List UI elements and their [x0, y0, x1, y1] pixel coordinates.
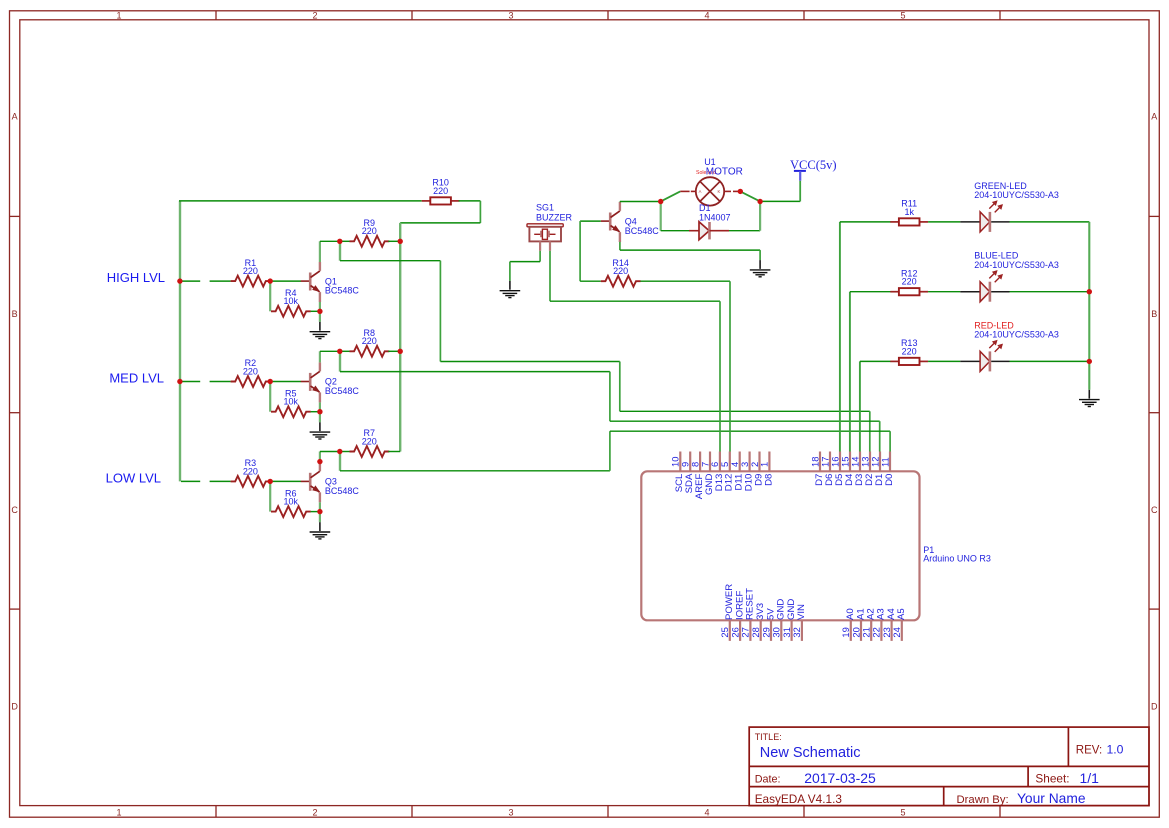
- svg-text:HIGH LVL: HIGH LVL: [107, 270, 165, 285]
- wire top horizontal to R10: [179, 200, 422, 202]
- junction dot R9 left: [337, 239, 342, 244]
- title block TITLE: [755, 732, 782, 742]
- svg-text:1.0: 1.0: [1107, 743, 1124, 757]
- ground Q2: [310, 422, 331, 439]
- svg-text:D8: D8: [763, 474, 774, 486]
- svg-text:220: 220: [433, 186, 448, 196]
- svg-text:B: B: [1151, 309, 1157, 319]
- wire Q2 base stub segment 2: [210, 381, 231, 383]
- junction dot Q3 collector: [317, 459, 322, 464]
- ground Q1: [310, 322, 331, 339]
- junction dot Q3 emitter: [317, 509, 322, 514]
- svg-text:4: 4: [704, 10, 709, 20]
- svg-text:MED LVL: MED LVL: [109, 371, 164, 386]
- wire Q2 base stub segment 1: [181, 381, 200, 383]
- svg-text:220: 220: [613, 266, 628, 276]
- resistor R14 220: [601, 258, 641, 287]
- wire R4 to emitter: [311, 310, 320, 312]
- wire LED GREEN-LED right: [1010, 221, 1090, 223]
- buzzer SG1 symbol: [527, 224, 563, 242]
- row tick marks: [10, 216, 1160, 609]
- resistor R10 220: [422, 178, 460, 205]
- svg-text:2017-03-25: 2017-03-25: [804, 770, 876, 786]
- wire R3 to base junction: [270, 480, 301, 482]
- svg-text:5: 5: [900, 807, 905, 817]
- wire Q3 base stub segment 2: [210, 480, 231, 482]
- svg-text:220: 220: [362, 336, 377, 346]
- wire R11 to LED: [928, 221, 960, 223]
- wire Q1 emitter down: [319, 302, 321, 322]
- junction dot R3 right: [268, 479, 273, 484]
- motor U1 symbol: [696, 177, 724, 205]
- wire Q1 collector up: [320, 241, 340, 262]
- resistor R8 220: [340, 328, 400, 357]
- wire Q4 base: [580, 221, 601, 281]
- svg-text:BC548C: BC548C: [325, 286, 360, 296]
- resistor R1 220: [231, 258, 271, 287]
- wire down to R5: [269, 382, 271, 412]
- svg-text:TITLE:: TITLE:: [755, 732, 782, 742]
- svg-text:220: 220: [362, 226, 377, 236]
- wire Q3 base stub segment 1: [181, 480, 200, 482]
- junction dot motor left: [658, 199, 663, 204]
- resistor R5 10k: [271, 388, 311, 417]
- transistor Q2 BC548C: [301, 362, 360, 402]
- svg-text:A: A: [12, 112, 18, 122]
- wire R5 to emitter: [311, 411, 320, 413]
- motor pin K: [724, 190, 740, 192]
- svg-text:BC548C: BC548C: [625, 226, 660, 236]
- svg-text:220: 220: [902, 277, 917, 287]
- resistor R11 1k: [890, 199, 928, 226]
- svg-text:D: D: [11, 702, 18, 712]
- svg-text:1/1: 1/1: [1080, 770, 1100, 786]
- junction dot Q1 emitter: [317, 309, 322, 314]
- wire LED BLUE-LED right: [1010, 291, 1090, 293]
- svg-text:10k: 10k: [284, 497, 299, 507]
- svg-text:SG1: SG1: [536, 203, 554, 213]
- buzzer pin 2: [549, 241, 551, 250]
- junction dot R1 right: [268, 278, 273, 283]
- svg-text:VIN: VIN: [796, 604, 807, 620]
- svg-text:A: A: [699, 189, 702, 194]
- svg-text:D: D: [1151, 702, 1158, 712]
- junction dot Q2 emitter: [317, 409, 322, 414]
- junction dot R2 right: [268, 379, 273, 384]
- wire to VCC: [760, 181, 800, 202]
- svg-text:10k: 10k: [284, 397, 299, 407]
- svg-text:VCC(5v): VCC(5v): [790, 158, 837, 172]
- resistor R12 220: [890, 268, 928, 295]
- svg-text:C: C: [1151, 505, 1158, 515]
- svg-text:C: C: [11, 505, 18, 515]
- wire motor left down: [661, 202, 689, 231]
- title block grid: [749, 727, 1149, 806]
- arduino P1 box: [641, 471, 919, 620]
- wire LED RED-LED right: [1010, 360, 1090, 362]
- junction dot VCC branch: [757, 199, 762, 204]
- svg-text:1: 1: [116, 10, 121, 20]
- svg-text:220: 220: [902, 346, 917, 356]
- wire left vertical rail: [179, 201, 181, 482]
- resistor R3 220: [231, 458, 271, 487]
- wire R14 to D12: [640, 281, 730, 451]
- svg-text:5: 5: [900, 10, 905, 20]
- svg-text:REV:: REV:: [1076, 744, 1102, 756]
- svg-text:BC548C: BC548C: [325, 486, 360, 496]
- svg-text:3: 3: [508, 807, 513, 817]
- net label MED LVL: [109, 371, 164, 386]
- svg-text:1k: 1k: [904, 207, 914, 217]
- resistor R9 220: [340, 218, 400, 247]
- svg-text:K: K: [718, 189, 721, 194]
- wire to R14: [580, 280, 601, 282]
- wire A-line vertical x=400: [399, 223, 401, 452]
- title block Date: [755, 770, 876, 786]
- svg-text:B: B: [12, 309, 18, 319]
- svg-text:204-10UYC/S530-A3: 204-10UYC/S530-A3: [974, 330, 1059, 340]
- junction dot R1 rail: [177, 278, 182, 283]
- wire pin to R11: [840, 222, 891, 452]
- wire buzzer right to D13: [550, 251, 720, 452]
- wire Q4 emitter to ground: [620, 242, 760, 260]
- arduino bottom pin names: [724, 584, 907, 620]
- wire LED common vertical: [1088, 222, 1090, 390]
- wire R13 to LED: [928, 360, 960, 362]
- svg-text:D0: D0: [884, 474, 895, 486]
- ground Q4 emitter: [750, 260, 771, 277]
- wire Q2 collector up: [320, 351, 340, 362]
- svg-text:32: 32: [791, 627, 802, 637]
- svg-text:10k: 10k: [284, 296, 299, 306]
- svg-text:1: 1: [116, 807, 121, 817]
- wire Q2 emitter down: [319, 402, 321, 422]
- wire R10 right elbow: [400, 201, 480, 223]
- svg-text:204-10UYC/S530-A3: 204-10UYC/S530-A3: [974, 190, 1059, 200]
- arduino bottom pin numbers: [719, 627, 902, 637]
- wire Q1 base stub segment 2: [210, 280, 231, 282]
- wire LOW branch: [340, 431, 890, 471]
- wire Q1 base stub segment 1: [181, 280, 200, 282]
- junction dot R7 left: [337, 449, 342, 454]
- LED BLUE-LED: [960, 251, 1059, 302]
- svg-text:Date:: Date:: [755, 774, 781, 786]
- svg-text:220: 220: [362, 436, 377, 446]
- svg-text:Sheet:: Sheet:: [1035, 772, 1069, 786]
- row ruler letters: [11, 112, 1158, 712]
- arduino bottom pin stubs: [730, 620, 902, 641]
- LED RED-LED: [960, 320, 1059, 371]
- junction dot RED row: [1087, 359, 1092, 364]
- diode D1 1N4007: [689, 203, 731, 240]
- junction dot BLUE row: [1087, 289, 1092, 294]
- svg-text:BUZZER: BUZZER: [536, 212, 573, 222]
- svg-text:1: 1: [759, 462, 770, 467]
- ground Q3: [310, 522, 331, 539]
- wire Q3 collector up: [320, 452, 340, 463]
- wire motor left diagonal: [661, 191, 681, 201]
- buzzer pin 1: [539, 241, 541, 250]
- resistor R4 10k: [271, 288, 311, 317]
- svg-text:EasyEDA V4.1.3: EasyEDA V4.1.3: [755, 792, 843, 806]
- wire pin to R12: [850, 292, 891, 452]
- resistor R13 220: [890, 338, 928, 365]
- transistor Q3 BC548C: [301, 462, 360, 502]
- svg-text:Your Name: Your Name: [1017, 791, 1086, 806]
- wire motor right diagonal: [740, 191, 760, 201]
- arduino top pin names: [674, 473, 895, 499]
- resistor R6 10k: [271, 488, 311, 517]
- wire HIGH branch: [340, 241, 870, 451]
- wire MED branch: [340, 351, 880, 451]
- column tick marks: [216, 11, 1000, 817]
- buzzer SG1 labels: [536, 203, 573, 223]
- svg-text:Drawn By:: Drawn By:: [957, 794, 1009, 806]
- title block Sheet: [1035, 770, 1099, 786]
- junction dot R8 right: [398, 349, 403, 354]
- svg-text:204-10UYC/S530-A3: 204-10UYC/S530-A3: [974, 260, 1059, 270]
- title block REV: [1076, 743, 1124, 757]
- wire R2 to base junction: [270, 381, 301, 383]
- ground buzzer: [500, 281, 521, 298]
- motor pin A: [680, 190, 696, 192]
- svg-text:A: A: [1151, 112, 1157, 122]
- resistor R2 220: [231, 358, 271, 387]
- wire R1 to base junction: [270, 280, 301, 282]
- svg-text:A5: A5: [896, 608, 907, 620]
- junction dot R2 rail: [177, 379, 182, 384]
- svg-text:4: 4: [704, 807, 709, 817]
- svg-text:Arduino UNO R3: Arduino UNO R3: [923, 554, 991, 564]
- svg-text:11: 11: [879, 457, 890, 467]
- svg-text:U1: U1: [704, 157, 716, 167]
- power flag VCC(5v): [790, 158, 837, 181]
- svg-text:2: 2: [312, 10, 317, 20]
- wire down to R6: [269, 481, 271, 511]
- svg-text:New Schematic: New Schematic: [760, 745, 861, 761]
- wire buzzer left to ground: [510, 251, 540, 281]
- title block New Schematic: [760, 745, 861, 761]
- arduino P1 labels: [923, 545, 991, 564]
- svg-text:1N4007: 1N4007: [699, 212, 731, 222]
- svg-text:220: 220: [243, 466, 258, 476]
- arduino top pin stubs: [680, 452, 890, 472]
- svg-text:2: 2: [312, 807, 317, 817]
- junction dot motor pin K: [738, 189, 743, 194]
- motor U1 labels: [696, 157, 743, 178]
- arduino top pin numbers: [670, 457, 891, 467]
- svg-text:24: 24: [891, 627, 902, 637]
- transistor Q4 BC548C: [601, 202, 659, 242]
- wire down to R4: [269, 281, 271, 311]
- LED GREEN-LED: [960, 181, 1059, 232]
- title block Drawn By: [957, 791, 1086, 806]
- svg-text:BC548C: BC548C: [325, 386, 360, 396]
- svg-text:3: 3: [508, 10, 513, 20]
- svg-text:MOTOR: MOTOR: [706, 166, 743, 177]
- svg-text:220: 220: [243, 366, 258, 376]
- wire pin to R13: [860, 361, 891, 451]
- svg-text:LOW LVL: LOW LVL: [106, 470, 161, 485]
- title block EasyEDA version: [755, 792, 843, 806]
- wire R6 to emitter: [311, 511, 320, 513]
- transistor Q1 BC548C: [301, 262, 360, 302]
- column ruler numbers: [116, 10, 905, 817]
- junction dot R8 left: [337, 349, 342, 354]
- wire Q3 emitter down: [319, 502, 321, 522]
- resistor R7 220: [340, 428, 400, 457]
- ground LED common: [1079, 390, 1100, 407]
- net label HIGH LVL: [107, 270, 165, 285]
- wire R12 to LED: [928, 291, 960, 293]
- net label LOW LVL: [106, 470, 161, 485]
- wire Q4 collector: [620, 201, 661, 204]
- junction dot R9 right: [398, 239, 403, 244]
- wire diode right up: [729, 202, 760, 231]
- svg-text:220: 220: [243, 266, 258, 276]
